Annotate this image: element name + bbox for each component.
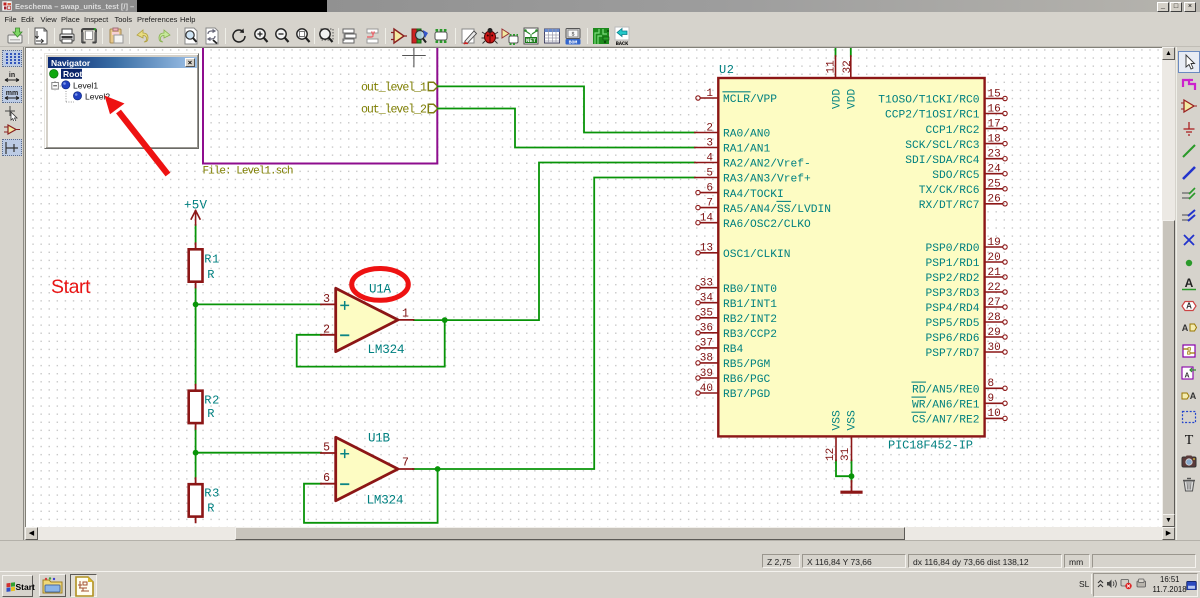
- wire U1B output to U2 pin5: [413, 178, 695, 470]
- U2 pin 34 RB1/INT1: [696, 293, 777, 311]
- svg-text:A: A: [1182, 323, 1189, 333]
- U2 pin 13 OSC1/CLKIN: [696, 243, 791, 261]
- U2 pin 22 PSP3/RD3: [925, 282, 1007, 300]
- wire VDD pin32: [850, 44, 852, 56]
- U2 pin 6 RA4/TOCKI: [696, 182, 784, 200]
- U2 pin 1 MCLR/VPP: [696, 88, 777, 106]
- vertical scrollbar: [1162, 47, 1175, 527]
- wire R1 to junction A: [195, 287, 197, 304]
- junction node U1A out: [442, 317, 448, 323]
- U2 pin 32 VDD: [842, 56, 858, 109]
- schematic canvas: [25, 47, 1162, 527]
- U2 pin 26 RX/DT/RC7: [919, 194, 1007, 212]
- hierarchical sheet Level1: [203, 30, 437, 164]
- horizontal scrollbar: [25, 527, 1175, 540]
- U2 pin 39 RB6/PGC: [696, 368, 771, 386]
- U2 pin 24 SDO/RC5: [932, 164, 1007, 182]
- svg-text:A: A: [1186, 302, 1192, 311]
- wire R2 to junction B: [195, 427, 197, 453]
- svg-text:T: T: [1185, 433, 1194, 448]
- wire U1A output to U2 pin4: [414, 163, 695, 321]
- U2 pin 2 RA0/AN0: [695, 122, 771, 140]
- U2 pin 25 TX/CK/RC6: [919, 179, 1007, 197]
- status bar: [0, 540, 1200, 571]
- svg-text:A: A: [1184, 372, 1189, 379]
- junction A: [193, 302, 199, 308]
- wire out_level_1 to U2 pin2: [438, 86, 695, 132]
- svg-text:in: in: [8, 72, 14, 79]
- wire VSS pin31 to ground: [851, 460, 853, 481]
- U2 pin 18 SCK/SCL/RC3: [905, 133, 1007, 151]
- U2 pin 33 RB0/INT0: [696, 278, 777, 296]
- U2 pin 21 PSP2/RD2: [925, 267, 1007, 285]
- crosshair cursor: [403, 44, 426, 67]
- U2 pin 17 CCP1/RC2: [925, 118, 1007, 136]
- U2 pin 12 VSS: [825, 410, 844, 461]
- U2 pin 4 RA2/AN2/Vref-: [695, 152, 811, 170]
- U2 pin 7 RA5/AN4/SS/LVDIN: [696, 197, 831, 215]
- U2 pin 37 RB4: [696, 338, 744, 356]
- IC U2 PIC18F452-IP body: [718, 78, 984, 436]
- wire U1A feedback: [297, 320, 445, 367]
- wire +5V to R1: [195, 225, 197, 243]
- svg-text:mm: mm: [5, 90, 17, 97]
- U2 pin 8 RD/AN5/RE0: [912, 378, 1007, 396]
- wire out_level_2 to U2 pin3: [438, 109, 695, 148]
- sheet pin out_level_2: [361, 104, 438, 117]
- U2 pin 38 RB5/PGM: [696, 353, 771, 371]
- wire VDD pin11: [835, 44, 837, 56]
- U2 pin 20 PSP1/RD1: [925, 252, 1007, 270]
- svg-text:Level2: Level2: [85, 91, 110, 101]
- U2 pin 23 SDI/SDA/RC4: [905, 149, 1007, 167]
- navigator window: [44, 53, 199, 149]
- U2 pin 10 CS/AN7/RE2: [912, 408, 1007, 426]
- svg-text:A: A: [1190, 391, 1197, 401]
- U2 pin 9 WR/AN6/RE1: [912, 393, 1007, 411]
- power symbol +5V: [191, 211, 200, 226]
- taskbar: [0, 571, 1200, 598]
- U2 pin 31 VSS: [840, 410, 858, 461]
- U2 pin 35 RB2/INT2: [696, 308, 777, 326]
- svg-text:$: $: [571, 32, 574, 38]
- svg-text:Level1: Level1: [73, 80, 98, 90]
- wire junction B to U1B pin5: [196, 452, 321, 454]
- junction B: [193, 450, 199, 456]
- annotation red ellipse around U1A: [352, 269, 409, 301]
- op-amp U1B LM324: [321, 432, 414, 508]
- wire junction B to R3: [195, 453, 197, 478]
- svg-text:NET: NET: [526, 37, 537, 44]
- sheet pin out_level_1: [361, 81, 438, 94]
- U2 pin 36 RB3/CCP2: [696, 323, 777, 341]
- U2 pin 11 VDD: [826, 56, 844, 109]
- U2 pin 14 RA6/OSC2/CLKO: [696, 213, 811, 231]
- svg-text:BOM: BOM: [569, 39, 578, 45]
- svg-text:A: A: [1185, 276, 1194, 290]
- U2 pin 27 PSP4/RD4: [925, 297, 1007, 315]
- ground symbol: [842, 481, 861, 492]
- wire U1B feedback: [304, 469, 438, 523]
- svg-text:BACK: BACK: [615, 41, 628, 46]
- svg-text:Root: Root: [63, 69, 83, 79]
- resistor R2: [189, 385, 220, 429]
- wire junction A to R2: [195, 304, 197, 384]
- junction C: [849, 473, 855, 479]
- junction node U1B out: [435, 466, 441, 472]
- resistor R1: [189, 243, 220, 287]
- U2 pin 29 PSP6/RD6: [925, 327, 1007, 345]
- U2 pin 30 PSP7/RD7: [925, 342, 1007, 360]
- wire junction A to U1A pin3: [196, 303, 321, 305]
- op-amp U1A LM324: [321, 283, 414, 357]
- U2 pin 28 PSP5/RD5: [925, 312, 1007, 330]
- resistor R3: [189, 478, 220, 522]
- U2 pin 16 CCP2/T1OSI/RC1: [885, 103, 1007, 121]
- U2 pin 19 PSP0/RD0: [925, 237, 1007, 255]
- U2 pin 3 RA1/AN1: [695, 137, 771, 155]
- U2 pin 40 RB7/PGD: [696, 383, 771, 401]
- wire VSS pin12 to junction C: [836, 460, 852, 476]
- U2 pin 15 T1OSO/T1CKI/RC0: [878, 88, 1007, 106]
- U2 pin 5 RA3/AN3/Vref+: [695, 167, 811, 185]
